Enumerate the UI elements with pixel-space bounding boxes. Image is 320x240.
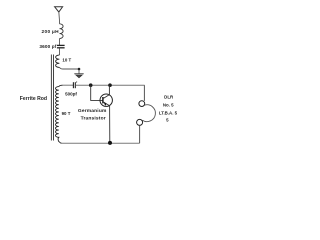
junction — [78, 68, 81, 71]
earphone terminal bottom — [137, 119, 143, 125]
top wire: coil to C2 — [63, 84, 74, 86]
emitter arrowhead — [104, 102, 107, 106]
earphone headband arc — [142, 105, 155, 122]
capacitor C1 — [57, 45, 65, 47]
emitter lead with arrow — [103, 102, 110, 143]
transformer core (ferrite rod) — [51, 55, 53, 141]
wire — [59, 39, 61, 46]
node emitter junction — [108, 141, 112, 145]
label DLR No. 5 LT.B.A. 5 — [159, 95, 178, 123]
inductor L1 — [60, 24, 64, 39]
svg-text:DLR: DLR — [164, 95, 174, 100]
svg-text:10 T: 10 T — [62, 58, 71, 63]
bottom wire — [62, 142, 140, 144]
transistor Q1 germanium — [100, 94, 112, 106]
collector lead — [103, 85, 109, 98]
wire — [59, 48, 61, 55]
primary coil 10T — [56, 55, 60, 67]
top wire: C2 to earphone — [76, 84, 145, 86]
svg-text:3600 pf: 3600 pf — [39, 44, 56, 49]
svg-text:200 µH: 200 µH — [42, 29, 60, 35]
svg-text:Transistor: Transistor — [81, 115, 106, 121]
svg-text:Germanium: Germanium — [78, 108, 107, 114]
wire to ground — [59, 67, 79, 73]
transistor base bar — [102, 97, 104, 103]
secondary coil 90T — [55, 85, 62, 143]
svg-text:500pf: 500pf — [65, 92, 77, 97]
earphone return wire down — [139, 125, 141, 143]
svg-text:90 T: 90 T — [62, 111, 71, 116]
antenna — [55, 7, 63, 24]
capacitor C2 value 500pf — [73, 82, 75, 88]
earphone terminal top — [139, 101, 145, 107]
svg-text:No. 5: No. 5 — [163, 102, 174, 107]
wire to base — [91, 85, 103, 100]
node base junction — [89, 83, 93, 87]
earphone feed wire down — [143, 85, 145, 101]
node collector junction — [108, 83, 112, 87]
ground — [74, 74, 83, 78]
svg-text:LT.B.A. 5: LT.B.A. 5 — [159, 110, 178, 115]
svg-text:Ferrite Rod: Ferrite Rod — [20, 96, 47, 102]
speck artifact above C2 — [76, 81, 77, 82]
